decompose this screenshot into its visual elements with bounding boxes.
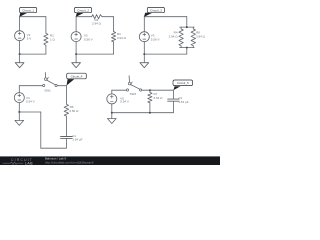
svg-text:5.54 V: 5.54 V [120,100,129,104]
resistor R8 [191,29,206,46]
footer bar [0,156,220,165]
wire top rail circuit 3 [144,16,187,18]
svg-text:1.54 µF: 1.54 µF [72,138,82,142]
wire R7 top stub [149,90,151,92]
wire R4 top stub [180,27,182,29]
wire bottom rail circuit 3 [144,53,187,55]
voltage source V4 [14,93,34,104]
svg-text:SW2: SW2 [130,92,137,96]
wire V5 bottom [111,104,113,113]
svg-text:3.94 Ω: 3.94 Ω [117,36,127,40]
junction dot V5 bottom [111,112,113,114]
svg-text:5 V: 5 V [27,37,32,41]
svg-text:5.56 V: 5.56 V [151,37,160,41]
voltage source V3 [139,32,159,42]
wire R8 bottom stub [192,46,194,48]
voltage source V2 [71,32,93,42]
wire mid rail circuit 4 [19,111,41,113]
resistor R7 [148,92,163,103]
wire V2 bottom [75,42,77,55]
capacitor C1 [61,134,83,142]
wire R4 bottom stub [180,46,182,48]
resistor R3 [112,32,127,42]
wire left riser circuit 4 [40,112,42,148]
svg-text:2.94 Ω: 2.94 Ω [92,22,102,26]
wire stem from parallel pair bottom [186,48,188,55]
ground circuit 5 [107,113,116,124]
node flag Circuit_4 [67,73,87,85]
resistor R6 [64,104,79,116]
wire top rail circuit 1 [20,16,46,18]
svg-text:LAB: LAB [25,162,33,166]
voltage source V5 [107,94,129,104]
wire top rail left circuit 2 [76,16,92,18]
wire bottom rail circuit 5 [112,112,174,114]
svg-text:http://circuitlab.com/c/rm2jk3: http://circuitlab.com/c/rm2jk36yanjn5 [45,160,94,164]
wire V5 top [111,90,113,94]
junction dot R7 bottom [149,112,151,114]
junction dot circuit 1 [19,53,21,55]
junction dot parallel bottom [186,47,188,49]
svg-text:Circuit_5: Circuit_5 [177,81,189,85]
junction dot parallel top [186,26,188,28]
capacitor C2 [168,96,189,104]
svg-text:Circuit_4: Circuit_4 [71,74,83,78]
wire R1 bottom lead [45,45,47,54]
ground circuit 1 [15,54,24,68]
wire stem to parallel pair top [186,17,188,27]
wire top rail right circuit 2 [102,16,114,18]
wire bottom rail circuit 4 [41,147,67,149]
wire V4 bottom [18,103,20,112]
wire R8 top stub [192,27,194,29]
CircuitLab logo [3,158,34,166]
node flag Circuit_1 [19,7,37,17]
wire V3 bottom [143,42,145,54]
wire V1 bottom [19,41,21,54]
resistor R4 [169,29,184,46]
wire R1 top lead [45,17,47,34]
ground circuit 3 [140,54,149,68]
switch SW1 [43,73,58,93]
svg-text:2.94 Ω: 2.94 Ω [169,34,179,38]
wire R6 bottom to C1 [65,116,67,136]
svg-text:5.56 V: 5.56 V [84,37,93,41]
wire bottom rail circuit 2 [76,53,114,55]
node flag Circuit_5 [173,80,193,90]
wire C1 bottom [65,139,67,149]
resistor R1 [44,33,56,45]
svg-text:Circuit_3: Circuit_3 [150,8,162,12]
wire C2 bottom [172,101,174,112]
wire R3 top lead [113,17,115,32]
svg-text:SW1: SW1 [44,89,51,93]
wire parallel bottom mini rail [180,47,195,49]
junction dot circuit 2 [75,53,77,55]
wire corner down to C2 [172,90,174,99]
wire corner down to R6 [65,86,67,105]
svg-text:5.54 V: 5.54 V [26,100,35,104]
wire top rail circuit 5 left [112,89,127,91]
junction dot R7 top [149,89,151,91]
svg-text:6.56 Ω: 6.56 Ω [69,109,79,113]
wire left drop circuit 3 [143,17,145,32]
svg-text:Circuit_1: Circuit_1 [22,8,34,12]
junction dot circuit 4 [18,111,20,113]
svg-text:1.54 µF: 1.54 µF [178,100,188,104]
wire left drop circuit 1 [19,17,21,31]
wire top rail circuit 5 right [142,89,174,91]
svg-text:6.54 Ω: 6.54 Ω [154,96,164,100]
resistor R2 [92,15,102,26]
switch SW2 [126,76,141,96]
wire V4 top [18,86,20,93]
wire parallel top mini rail [180,26,195,28]
ground circuit 4 [15,112,24,125]
wire bottom rail circuit 1 [20,53,46,55]
wire R3 bottom lead [113,42,115,54]
wire SW1 to corner [57,85,66,87]
ground circuit 2 [72,54,81,68]
svg-text:1 Ω: 1 Ω [50,37,56,41]
wire top rail circuit 4 [19,85,42,87]
node flag Circuit_3 [144,7,165,17]
svg-text:Circuit_2: Circuit_2 [77,8,89,12]
node flag Circuit_2 [74,7,91,17]
voltage source V1 [15,31,32,41]
svg-text:3.94 Ω: 3.94 Ω [196,34,206,38]
wire left drop circuit 2 [75,17,77,32]
junction dot circuit 3 [143,53,145,55]
wire R7 bottom lead [149,103,151,113]
